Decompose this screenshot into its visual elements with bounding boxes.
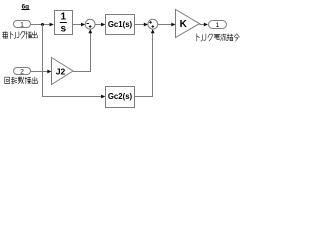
svg-text:J2: J2 [56,66,66,76]
outport 1 oval [209,21,227,29]
node branch dot [41,23,44,26]
integrator block 1/s [55,11,73,35]
label 回転数検出 [5,77,10,83]
wire Gc2 up to sum2 [135,33,153,97]
svg-text:2: 2 [20,68,24,75]
sum junction 2 [148,19,158,29]
svg-text:Gc1(s): Gc1(s) [108,20,133,29]
sum junction 1 [85,19,95,29]
inport 1 oval [14,21,31,28]
svg-text:1: 1 [20,21,24,28]
wire inport2 to J2 [31,71,49,73]
wire inport1 to integrator [31,24,51,26]
label 軸トルク検出 [2,32,7,39]
wire integrator to sum1 [73,24,82,26]
wire K to outport [200,24,205,26]
wire Gc1 to sum2 [135,24,145,26]
gain K triangle [176,10,200,38]
block Gc2(s) [106,87,135,108]
label トルク電流指令 [197,34,199,41]
svg-text:s: s [61,24,67,35]
svg-text:K: K [180,19,188,30]
wire sum1 to Gc1 [95,24,102,26]
inport 2 oval [14,68,31,75]
wire sum2 to gain K [158,24,172,26]
svg-text:1: 1 [216,22,220,29]
wire branch down to Gc2 [43,25,102,97]
svg-text:Gc2(s): Gc2(s) [108,92,133,101]
block Gc1(s) [106,15,135,35]
wire J2 up to sum1 [73,33,91,72]
gain J2 triangle [52,58,74,85]
svg-text:1: 1 [61,11,67,22]
